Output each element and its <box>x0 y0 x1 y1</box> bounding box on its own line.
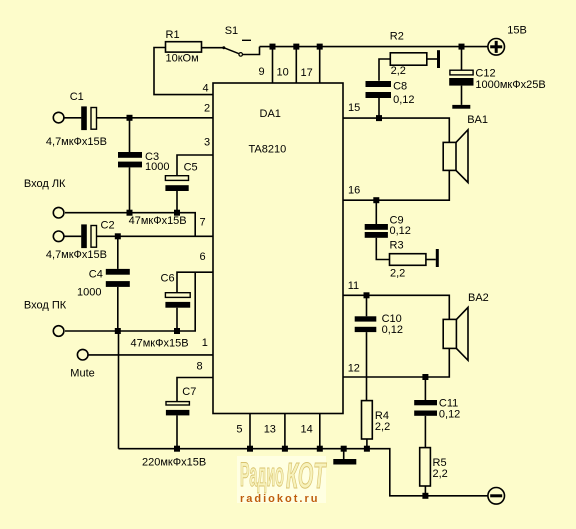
svg-text:13: 13 <box>264 423 276 435</box>
svg-text:C4: C4 <box>89 268 103 280</box>
svg-text:C8: C8 <box>393 81 407 93</box>
wire pin 14 <box>319 414 321 449</box>
junction pin13/bus <box>282 446 288 452</box>
svg-text:47мкФх15В: 47мкФх15В <box>131 337 189 349</box>
svg-text:2,2: 2,2 <box>375 421 390 433</box>
svg-text:Вход ПК: Вход ПК <box>24 299 67 311</box>
resistor R4 <box>362 401 391 439</box>
wire pin 17 <box>319 47 321 83</box>
svg-text:R2: R2 <box>390 30 404 42</box>
speaker BA1 <box>443 114 488 182</box>
wire pin 5 <box>249 414 251 449</box>
svg-text:DA1: DA1 <box>260 108 281 120</box>
wire C1 to pin 2 <box>96 117 213 119</box>
junction R4/bus <box>364 446 370 452</box>
svg-text:Вход ЛК: Вход ЛК <box>24 178 66 190</box>
capacitor C4 <box>77 236 130 331</box>
resistor R5 <box>420 448 448 486</box>
junction C12 <box>459 44 465 50</box>
wire pin 13 <box>284 414 286 449</box>
wire common ЛК <box>65 213 195 237</box>
capacitor C12 <box>449 47 545 105</box>
wire R5 to output wire <box>424 486 426 496</box>
svg-text:12: 12 <box>348 362 360 374</box>
resistor R1 <box>166 29 202 65</box>
wire pin 6 to C6 <box>177 272 213 293</box>
junction pin10 <box>293 44 299 50</box>
junction C3 bottom <box>127 210 133 216</box>
ground (C12) <box>452 105 470 109</box>
wire terminal to C1 <box>64 117 82 119</box>
svg-text:BA2: BA2 <box>468 292 489 304</box>
wire R1 right to switch <box>202 47 224 49</box>
wire pin 11 to speaker BA2 <box>343 295 449 319</box>
svg-text:S1: S1 <box>225 25 238 37</box>
svg-text:11: 11 <box>348 280 359 292</box>
svg-text:2,2: 2,2 <box>391 65 406 77</box>
svg-text:1: 1 <box>202 337 208 349</box>
junction R5/output wire <box>422 493 428 499</box>
junction C4/pin7 <box>115 233 121 239</box>
wire switch to +rail <box>243 47 260 55</box>
junction C10/pin11 <box>364 292 370 298</box>
terminal +15В <box>488 25 527 56</box>
ground (bus) <box>333 449 356 465</box>
wire C8 to pin15 <box>378 98 380 118</box>
terminal Mute <box>70 349 94 379</box>
capacitor C1 <box>46 91 107 148</box>
capacitor C5 <box>165 161 197 212</box>
wire pin 16 to speaker BA1 <box>343 170 449 200</box>
svg-text:4,7мкФх15В: 4,7мкФх15В <box>46 249 107 261</box>
svg-text:TA8210: TA8210 <box>249 144 287 156</box>
svg-text:15: 15 <box>348 102 360 114</box>
input common terminal ЛК <box>53 207 64 218</box>
svg-text:1000: 1000 <box>145 161 169 173</box>
wire terminal to C2 <box>64 235 82 237</box>
svg-text:3: 3 <box>204 137 210 149</box>
capacitor C9 <box>365 200 411 238</box>
junction C6 bottom <box>174 328 180 334</box>
wire R4 to bus <box>366 439 368 449</box>
capacitor C6 <box>161 272 191 331</box>
svg-text:КОТ: КОТ <box>286 457 327 497</box>
junction C8/pin15 <box>376 115 382 121</box>
svg-text:6: 6 <box>200 251 206 263</box>
svg-text:R1: R1 <box>166 29 180 41</box>
svg-text:C1: C1 <box>70 91 84 103</box>
input common terminal ПК <box>53 326 64 337</box>
junction pin17 <box>317 44 323 50</box>
svg-text:7: 7 <box>200 217 206 229</box>
wire R3 right lead <box>426 259 436 261</box>
svg-text:Mute: Mute <box>70 368 94 380</box>
svg-text:R3: R3 <box>390 240 404 252</box>
speaker BA2 <box>443 292 489 360</box>
svg-text:1000мкФх25В: 1000мкФх25В <box>475 79 545 91</box>
wire C9 to R3 <box>376 238 389 260</box>
wire C10 to R4 (crosses pin12 wire) <box>366 332 368 401</box>
capacitor C11 <box>414 377 460 420</box>
wire pin 9 <box>272 47 274 83</box>
svg-text:C7: C7 <box>182 386 196 398</box>
svg-text:BA1: BA1 <box>467 114 488 126</box>
switch S1 <box>222 25 251 56</box>
svg-text:10кОм: 10кОм <box>166 53 199 65</box>
svg-text:radiokot.ru: radiokot.ru <box>240 493 319 505</box>
svg-text:4,7мкФх15В: 4,7мкФх15В <box>46 136 107 148</box>
resistor R3 <box>390 240 426 280</box>
junction C9/pin16 <box>373 197 379 203</box>
svg-text:2: 2 <box>204 102 210 114</box>
junction pin14/bus <box>317 446 323 452</box>
capacitor C7 <box>142 386 206 469</box>
ground bus wire <box>119 449 488 496</box>
wire R2 right lead <box>427 58 437 60</box>
svg-text:0,12: 0,12 <box>393 94 414 106</box>
wire pin 15 to speaker BA1 <box>343 118 449 142</box>
wire pin 12 to speaker BA2 <box>343 348 449 377</box>
capacitor C10 <box>355 295 403 336</box>
svg-text:4: 4 <box>203 83 209 95</box>
input terminal ЛК <box>53 112 64 123</box>
svg-text:Радио: Радио <box>240 455 284 494</box>
junction C11/pin12 <box>422 374 428 380</box>
wire +15V top rail <box>260 46 489 48</box>
svg-text:0,12: 0,12 <box>382 324 403 336</box>
rail tap bar (R2 to +15V) <box>437 50 440 68</box>
junction C3/pin2 <box>127 115 133 121</box>
terminal minus <box>488 488 505 505</box>
junction C4 bottom <box>115 328 121 334</box>
svg-text:C2: C2 <box>101 220 115 232</box>
junction pin5/bus <box>247 446 253 452</box>
wire C2 to pin 7 <box>96 235 213 237</box>
svg-text:10: 10 <box>277 67 289 79</box>
resistor R2 <box>390 30 427 77</box>
svg-text:47мкФх15В: 47мкФх15В <box>129 215 187 227</box>
svg-text:14: 14 <box>301 423 313 435</box>
wire common ПК to pin 6 net <box>65 272 195 331</box>
svg-text:0,12: 0,12 <box>439 408 460 420</box>
input terminal ПК <box>53 231 64 242</box>
wire ПК common down to ground bus <box>118 331 120 449</box>
svg-text:2,2: 2,2 <box>433 468 448 480</box>
svg-text:15В: 15В <box>507 25 527 37</box>
svg-text:8: 8 <box>197 361 203 373</box>
svg-text:C5: C5 <box>184 161 198 173</box>
wire R1 left to pin 4 <box>154 48 213 95</box>
junction C5 bottom <box>174 210 180 216</box>
svg-text:2,2: 2,2 <box>390 268 405 280</box>
junction C7/bus <box>174 446 180 452</box>
rail tap bar (R3 to +15V) <box>436 249 439 267</box>
svg-text:16: 16 <box>348 185 360 197</box>
capacitor C8 <box>366 81 415 107</box>
svg-text:1000: 1000 <box>77 287 101 299</box>
svg-text:C12: C12 <box>475 68 495 80</box>
svg-text:5: 5 <box>236 423 242 435</box>
wire pin 10 <box>295 47 297 83</box>
junction S1/pin9 <box>270 44 276 50</box>
svg-text:C6: C6 <box>161 272 175 284</box>
svg-text:0,12: 0,12 <box>390 225 411 237</box>
watermark РадиоКОТ <box>237 455 327 505</box>
capacitor C3 <box>118 118 169 213</box>
junction ground stub <box>341 446 347 452</box>
op-amp / IC DA1 TA8210 body <box>213 83 343 414</box>
svg-text:9: 9 <box>259 66 265 78</box>
wire pin 3 to C5 <box>177 155 213 176</box>
svg-text:17: 17 <box>301 67 313 79</box>
svg-text:220мкФх15В: 220мкФх15В <box>142 456 206 468</box>
capacitor C2 <box>46 220 115 261</box>
wire pin 8 to C7 <box>177 378 213 402</box>
wire C11 to R5 <box>424 416 426 448</box>
wire R2 left lead down to C8 <box>379 59 390 81</box>
wire Mute to pin 1 <box>88 354 213 356</box>
